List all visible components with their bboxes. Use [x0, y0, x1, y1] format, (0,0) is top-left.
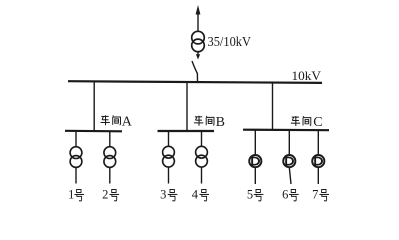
wire drop to workshop C — [272, 83, 274, 131]
svg-text:7: 7 — [312, 188, 318, 202]
label 4号 — [192, 188, 209, 202]
sub-bus workshop B — [158, 130, 215, 132]
label 6号 — [282, 188, 298, 202]
transformer 35/10kV (two overlapping circles) — [192, 31, 205, 51]
svg-text:4: 4 — [192, 188, 199, 202]
svg-text:6: 6 — [282, 188, 288, 202]
motor 7号: wire, circle with D, stub — [312, 130, 324, 184]
motor 6号: wire, circle with D, stub — [283, 130, 295, 184]
svg-text:3: 3 — [160, 188, 166, 202]
label 7号 — [312, 188, 329, 202]
transformer 3号: wire, two circles, stub — [163, 131, 175, 184]
transformer 1号: wire, two circles, stub — [70, 131, 82, 184]
sub-bus workshop C — [243, 129, 329, 132]
label 3号 — [160, 188, 177, 202]
motor 5号: wire, circle with D, stub — [249, 130, 261, 184]
transformer 2号: wire, two circles, stub — [104, 131, 116, 184]
label 车间B — [194, 115, 225, 130]
label 5号 — [247, 188, 264, 202]
svg-text:10kV: 10kV — [292, 68, 322, 83]
label 车间C — [291, 115, 323, 130]
sub-bus workshop A — [65, 130, 122, 133]
label 车间A — [101, 114, 133, 129]
svg-text:A: A — [122, 114, 133, 129]
switch (disconnector blade) — [192, 61, 198, 82]
down-arrow below transformer — [196, 52, 200, 60]
svg-text:B: B — [216, 115, 225, 130]
incoming feeder up-arrow — [196, 5, 201, 31]
label 1号 — [68, 188, 84, 202]
svg-text:2: 2 — [102, 188, 108, 202]
svg-text:35/10kV: 35/10kV — [208, 35, 252, 50]
svg-text:5: 5 — [247, 188, 253, 202]
wire drop to workshop A — [93, 82, 95, 132]
wire drop to workshop B — [186, 82, 188, 131]
label 2号 — [102, 188, 119, 202]
main bus 10kV — [68, 81, 322, 83]
transformer 4号: wire, two circles, stub — [196, 131, 208, 184]
svg-text:C: C — [313, 115, 322, 130]
svg-text:1: 1 — [68, 188, 74, 202]
